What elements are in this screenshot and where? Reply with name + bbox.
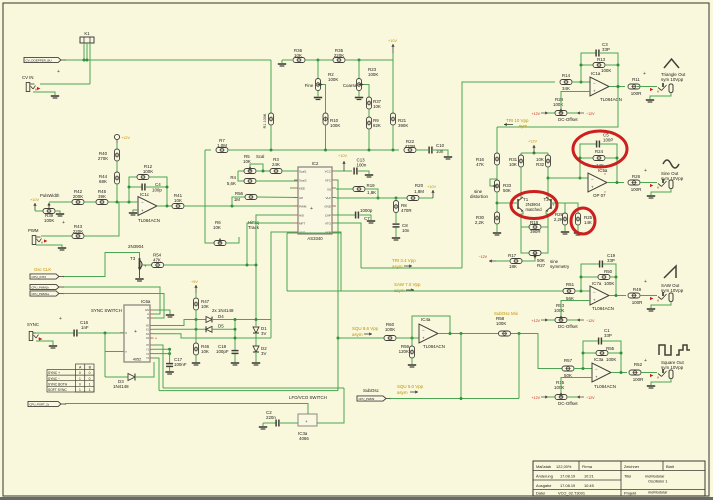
svg-text:matched: matched [526,207,543,212]
svg-text:10:21: 10:21 [584,474,594,479]
svg-text:SAW 7.0 Vpp: SAW 7.0 Vpp [394,282,421,287]
svg-text:X2: X2 [146,332,150,336]
svg-text:Zeichner: Zeichner [624,464,640,469]
svg-text:82K: 82K [373,123,381,128]
svg-text:+: + [644,168,647,174]
wire jack square ground [651,379,671,386]
wire R58 to R57 [511,334,563,369]
wire CV bus [65,59,271,61]
svg-text:100R: 100R [632,300,643,305]
wire Y0 to LFO bus [154,345,164,388]
svg-text:270K: 270K [98,156,108,161]
ground C13 [365,174,373,176]
junction R44 summing [116,201,119,204]
svg-text:2,2K: 2,2K [554,217,563,222]
svg-text:+12V: +12V [528,140,537,144]
wire K1 pin to CV IN [89,43,91,84]
svg-text:100R: 100R [631,91,642,96]
svg-text:⨯: ⨯ [657,299,660,303]
wire SYNC jack ground [36,341,53,345]
svg-text:−12V: −12V [586,396,595,400]
ground D2 [252,362,260,364]
svg-text:R57: R57 [564,358,573,363]
svg-text:DC-Offset: DC-Offset [558,117,578,122]
svg-text:10K: 10K [174,198,182,203]
svg-text:10:45: 10:45 [584,483,594,488]
wire Y3 to LFO bus2 [154,358,160,391]
supply +5V R47 [195,285,197,293]
svg-text:Blatt: Blatt [666,464,675,469]
svg-text:100pF: 100pF [216,349,229,354]
wire CV IN to K1 [40,83,90,85]
svg-text:100K: 100K [44,218,54,223]
svg-text:IC1a: IC1a [591,71,601,76]
sine out waveform glyph [663,160,679,168]
svg-text:meModular: meModular [648,490,668,495]
svg-text:CV IN: CV IN [22,75,33,80]
svg-text:R11: R11 [632,77,640,82]
svg-text:−: − [422,327,425,332]
wire R54 to sync clamp node [164,264,256,266]
svg-text:0: 0 [79,371,81,375]
wire HiFrq vertical [205,150,214,243]
svg-text:AS3340: AS3340 [307,236,323,241]
svg-text:−12V: −12V [586,112,595,116]
jack Square Out [658,374,662,377]
svg-text:TL084ACN: TL084ACN [594,384,616,389]
svg-text:IC6a: IC6a [141,299,151,304]
wire T2 collector to IC5a [548,177,584,179]
wire diode node vertical [234,320,236,351]
svg-text:100K: 100K [604,281,614,286]
wire R43 to summing [84,202,119,236]
svg-text:17.08.19: 17.08.19 [560,474,575,479]
svg-text:200K: 200K [73,194,83,199]
wire TRI sym row [497,87,618,127]
svg-text:+: + [134,329,137,335]
ground C2 [262,423,264,426]
svg-text:−: − [141,200,144,205]
svg-text:Datei: Datei [536,491,545,496]
svg-text:CPU_INT2: CPU_INT2 [32,275,47,279]
wire EN to ground [154,310,171,314]
ground IC1c plus input [133,210,138,212]
svg-text:47K: 47K [153,258,161,263]
svg-text:⨯: ⨯ [657,376,660,380]
svg-text:Y2: Y2 [146,352,150,356]
svg-text:SYNC: SYNC [27,322,39,327]
svg-text:47K: 47K [476,162,484,167]
svg-text:asym: asym [352,332,363,337]
svg-text:×: × [604,172,606,176]
svg-text:+: + [57,69,60,75]
svg-text:+: + [593,298,596,303]
wire sync to Y input [104,333,106,377]
wire Scal1 into pin [294,170,298,172]
wire IC3a output [611,372,627,374]
ground C10 [444,156,452,158]
wire emitter loop to R27 [521,227,529,253]
svg-text:X1: X1 [146,328,150,332]
svg-text:VCC: VCC [325,169,332,173]
svg-text:MFT: MFT [299,221,305,225]
svg-text:1000p: 1000p [360,208,373,213]
svg-text:K1: K1 [84,31,90,36]
jack SAW Out [658,297,662,300]
svg-text:R55: R55 [606,346,615,351]
IC IC6a 4052 [124,305,150,362]
svg-text:100p: 100p [152,188,162,193]
svg-text:100K: 100K [385,327,395,332]
svg-text:100P: 100P [603,138,613,143]
net flag CV_DOEPFER_BU [24,57,61,62]
svg-text:sym 10Vpp: sym 10Vpp [661,365,684,370]
svg-text:B: B [147,316,149,320]
svg-text:1: 1 [89,382,91,386]
svg-text:4066: 4066 [299,436,309,441]
svg-text:+: + [595,375,598,380]
svg-text:2N3904: 2N3904 [128,244,144,249]
svg-text:IC4a: IC4a [421,317,431,322]
svg-text:CPU_PORT_2x: CPU_PORT_2x [30,403,50,407]
triangle out waveform glyph [664,59,679,68]
svg-text:220n: 220n [266,415,276,420]
svg-text:68K: 68K [99,179,107,184]
svg-text:×: × [604,190,606,194]
wire R5 wiper loop [250,164,263,171]
svg-text:SQU 8.6 Vpp: SQU 8.6 Vpp [352,326,379,331]
svg-text:100K: 100K [606,357,616,362]
ground R36 left [282,59,286,61]
wire jack triangle ground [650,93,671,100]
svg-text:+12V: +12V [121,136,130,140]
svg-text:100R: 100R [631,187,642,192]
svg-text:1,8K: 1,8K [367,190,376,195]
supply -12V sine symmetry [496,260,510,262]
svg-text:10K: 10K [373,104,381,109]
svg-text:Firma: Firma [582,464,593,469]
svg-text:100K: 100K [330,123,340,128]
wire IC5a minus junction [579,177,582,180]
square out waveform glyph [659,345,671,355]
svg-text:⨯: ⨯ [657,186,660,190]
svg-text:CPU_PWM1b: CPU_PWM1b [32,286,50,290]
red ellipse around R25 [571,208,595,234]
svg-text:+12V: +12V [532,319,541,323]
wire IC3a out [317,388,344,423]
svg-text:PWM: PWM [28,228,39,233]
svg-text:sym 10Vpp: sym 10Vpp [661,77,684,82]
IC IC2 AS3340 [298,167,332,234]
svg-text:−12V: −12V [479,255,488,259]
svg-text:+10V: +10V [338,154,347,158]
svg-text:122,00%: 122,00% [556,464,572,469]
svg-text:Titel: Titel [624,474,631,479]
svg-text:R13: R13 [597,57,606,62]
svg-text:DC-Offset: DC-Offset [558,324,578,329]
svg-text:+: + [593,89,596,94]
wire CPU_PORT to LFO switch [65,404,308,415]
wire Coarse wiper to R37 [364,85,369,98]
bottom scan shadow [0,497,713,500]
svg-text:R27: R27 [537,263,546,268]
svg-text:2x 1N4148: 2x 1N4148 [212,308,234,313]
svg-text:−: − [595,366,598,371]
wire R37 to R9 [368,109,370,117]
svg-text:VSO: VSO [299,230,306,234]
svg-text:+: + [310,206,313,212]
svg-text:Coarse: Coarse [343,83,358,88]
wire IC4a feedback [412,316,450,338]
svg-text:SYNC SWITCH: SYNC SWITCH [91,308,122,313]
svg-text:+: + [141,208,144,213]
wire LFO bus2 SQU into switch [159,390,338,392]
svg-text:+: + [643,71,646,77]
wire PWM jack to R43 [41,235,72,237]
wire PWM jack ground [36,245,62,247]
svg-text:CV_DOEPFER_BU: CV_DOEPFER_BU [26,59,52,63]
svg-text:X3: X3 [146,336,150,340]
svg-text:VS: VS [327,187,331,191]
svg-text:HSI: HSI [299,213,304,217]
svg-text:VLF: VLF [325,196,331,200]
svg-text:−: − [593,289,596,294]
svg-text:A: A [147,312,149,316]
svg-text:1nF: 1nF [81,325,89,330]
svg-text:R32: R32 [536,162,545,167]
wire TRI asym row [361,267,462,269]
svg-text:R19: R19 [367,183,376,188]
svg-text:SOFT SYNC: SOFT SYNC [48,388,67,392]
svg-text:UP: UP [299,196,303,200]
junction R56 tap [231,205,234,208]
wire HSI to clamp node [256,215,294,326]
flag CPU_PORT_2x [28,401,61,406]
svg-text:+: + [422,336,425,341]
svg-text:Projekt: Projekt [624,491,637,496]
svg-text:SubOsc Mix: SubOsc Mix [494,311,519,316]
svg-text:IC7a: IC7a [592,281,602,286]
node A junction [317,59,320,62]
svg-text:10K: 10K [201,349,209,354]
ground C17 [165,371,173,373]
wire R27 wiper to R17 [522,259,535,261]
wire R39 wiper to R42 [49,201,72,203]
IC IC3a 4066 switch [298,414,317,426]
wire T1 base [497,202,518,204]
svg-text:100K: 100K [601,68,611,73]
svg-text:+10V: +10V [427,185,436,189]
svg-text:3V: 3V [261,331,266,336]
ground R59 [408,364,416,366]
svg-text:TL084ACN: TL084ACN [423,344,445,349]
svg-text:R26: R26 [632,174,641,179]
svg-text:100n: 100n [357,163,367,168]
ground C8 [392,237,400,239]
wire CPU_PWM1a to IC6a B [63,294,164,319]
wire sync row3 [154,334,272,338]
svg-text:470R: 470R [401,208,412,213]
wire R53 wiper to plus input [561,301,590,316]
svg-text:18K: 18K [509,264,517,269]
svg-text:Maßstab: Maßstab [536,464,551,469]
node junction CV bus [83,59,86,62]
svg-text:Track: Track [248,225,260,230]
svg-text:Ausgabe: Ausgabe [536,483,551,488]
supply +10V C13 [336,170,352,172]
svg-text:10K: 10K [243,159,251,164]
svg-text:GND: GND [324,204,332,208]
svg-text:100K: 100K [496,321,506,326]
svg-text:Oscillator 1: Oscillator 1 [648,479,667,484]
wire CV IN jack ground [33,92,55,95]
svg-text:+: + [62,220,65,226]
supply +12V shaper [521,152,548,154]
svg-text:symmetry: symmetry [550,264,570,269]
svg-text:sym: sym [519,124,527,129]
svg-text:14K: 14K [584,220,592,225]
svg-text:2,2K: 2,2K [475,220,484,225]
svg-text:R14: R14 [562,73,571,78]
svg-text:4052: 4052 [133,358,141,362]
svg-text:TL084ACN: TL084ACN [600,97,622,102]
svg-text:0: 0 [89,377,91,381]
svg-text:100K: 100K [554,308,564,313]
svg-text:390K: 390K [398,123,408,128]
wire CPU_PWM1b to IC6a A [63,287,160,314]
svg-text:asym: asym [392,264,403,269]
svg-text:100K: 100K [554,385,564,390]
svg-text:TL084ACN: TL084ACN [138,218,160,223]
svg-text:33P: 33P [602,47,610,52]
red ellipse around T1 T2 [511,192,557,219]
sync mode table [47,364,94,392]
svg-text:1: 1 [89,388,91,392]
svg-text:TL084ACN: TL084ACN [592,306,614,311]
wire SubOsc up leg [518,334,520,399]
svg-text:+10V: +10V [388,39,397,43]
wire SQU trunk from VFC [336,180,338,338]
wire IC7a output [609,295,626,297]
svg-text:+: + [644,279,647,285]
svg-text:IC3a: IC3a [594,357,604,362]
saw out waveform glyph [664,266,676,278]
svg-text:EN: EN [145,308,149,312]
svg-text:Fine: Fine [305,83,314,88]
ground T3 emitter [139,269,141,278]
svg-text:R1 100K: R1 100K [263,113,267,128]
svg-text:R24: R24 [595,149,604,154]
junction sync node [104,332,107,335]
svg-text:CPU_PWM1a: CPU_PWM1a [32,292,50,296]
wire SubOsc row [390,398,519,400]
svg-text:+: + [591,185,594,190]
svg-text:100K: 100K [328,77,338,82]
svg-text:24K: 24K [272,162,280,167]
supply +10V top [392,53,394,60]
svg-text:34K: 34K [562,86,570,91]
supply +12V circle IC1c [114,134,119,139]
wire SAW asym row [287,290,563,292]
wire K1 pin to CV bus [83,43,85,60]
wire IC4a output [438,333,499,335]
sub square waveform glyph [676,345,690,355]
wire VSB loop under IC2 [336,232,341,291]
svg-text:Osc CLK: Osc CLK [34,267,51,272]
svg-text:X: X [125,331,127,335]
svg-text:R52: R52 [634,362,643,367]
svg-text:C10: C10 [436,143,445,148]
svg-text:5,6K: 5,6K [227,181,236,186]
svg-text:+: + [644,358,647,364]
svg-text:+12V: +12V [532,112,541,116]
svg-text:10n: 10n [402,228,410,233]
ground R39 [56,213,64,215]
svg-text:CAP: CAP [325,213,331,217]
svg-text:CPU_PWM2: CPU_PWM2 [359,397,375,401]
supply +10V R20 [432,190,434,198]
svg-text:Scal: Scal [256,154,264,159]
ground R25 [574,232,582,234]
svg-text:17.08.19: 17.08.19 [560,483,575,488]
red ellipse around C5 R24 [573,131,627,167]
svg-text:0: 0 [89,371,91,375]
svg-text:0: 0 [79,382,81,386]
svg-text:+12V: +12V [532,396,541,400]
jack Triangle Out [658,88,662,91]
svg-text:1M: 1M [234,197,240,202]
svg-text:50K: 50K [503,188,511,193]
node junction coarse top [358,59,361,62]
wire IC1a output [609,86,625,88]
svg-text:10K: 10K [213,225,221,230]
svg-text:39K: 39K [98,194,106,199]
svg-text:1: 1 [79,377,81,381]
svg-text:R51: R51 [566,282,575,287]
svg-text:+10V: +10V [30,198,39,202]
svg-text:Y3: Y3 [146,356,150,360]
wire T2 base to R29 [551,203,565,213]
svg-text:−: − [591,176,594,181]
svg-text:33P: 33P [607,258,615,263]
svg-text:Scal2: Scal2 [299,178,307,182]
ground R46 [192,362,200,364]
ground C7 [367,220,375,222]
svg-text:1,8M: 1,8M [414,189,424,194]
svg-text:+: + [59,316,62,322]
svg-text:100R: 100R [633,377,644,382]
svg-text:R50: R50 [604,269,613,274]
svg-text:VCO_02.T3001: VCO_02.T3001 [558,491,585,496]
svg-text:D4: D4 [218,314,224,319]
wire KEE stub [290,187,294,189]
ground R30 [493,232,501,234]
svg-text:sym 10Vpp: sym 10Vpp [661,288,684,293]
wire TRI to IC1a input [462,82,555,268]
svg-text:VFC: VFC [325,178,332,182]
svg-text:VTO: VTO [325,221,332,225]
wire jack saw ground [651,302,671,309]
svg-text:R4: R4 [230,175,236,180]
svg-text:LFO/VCO SWITCH: LFO/VCO SWITCH [289,395,327,400]
wire IC5a output [607,182,624,184]
svg-text:SYNC −: SYNC − [48,377,60,381]
svg-text:Y0: Y0 [146,343,150,347]
ground CV IN [51,95,59,97]
svg-text:PulsWidth: PulsWidth [40,193,60,198]
svg-text:SYNC +: SYNC + [48,371,60,375]
svg-text:SubOsc: SubOsc [363,388,380,393]
